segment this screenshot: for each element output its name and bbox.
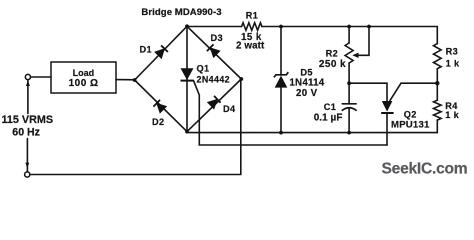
svg-text:D2: D2 — [152, 117, 165, 127]
svg-text:D5: D5 — [300, 68, 313, 78]
svg-text:1N4114: 1N4114 — [289, 77, 324, 88]
svg-text:1 k: 1 k — [446, 59, 460, 69]
svg-text:R1: R1 — [246, 11, 258, 21]
svg-text:D4: D4 — [223, 104, 236, 114]
svg-text:20 V: 20 V — [296, 88, 318, 99]
svg-text:SeekIC.com: SeekIC.com — [382, 160, 468, 177]
svg-text:Bridge MDA990-3: Bridge MDA990-3 — [141, 7, 221, 18]
svg-text:R2: R2 — [326, 48, 339, 58]
svg-text:D1: D1 — [140, 44, 153, 54]
svg-text:100 Ω: 100 Ω — [69, 78, 99, 89]
svg-text:R3: R3 — [446, 46, 459, 56]
svg-text:Load: Load — [73, 68, 95, 78]
svg-text:Q2: Q2 — [404, 109, 417, 119]
svg-text:D3: D3 — [211, 33, 224, 43]
svg-text:C1: C1 — [324, 102, 337, 112]
svg-text:60 Hz: 60 Hz — [12, 127, 40, 139]
svg-text:2N4442: 2N4442 — [197, 75, 231, 85]
svg-text:115 VRMS: 115 VRMS — [2, 114, 54, 126]
svg-text:250 k: 250 k — [319, 59, 346, 70]
svg-text:MPU131: MPU131 — [391, 120, 430, 131]
svg-text:Q1: Q1 — [197, 64, 210, 74]
svg-text:2 watt: 2 watt — [236, 41, 265, 52]
svg-text:0.1 µF: 0.1 µF — [314, 113, 343, 124]
svg-text:1 k: 1 k — [445, 110, 459, 120]
